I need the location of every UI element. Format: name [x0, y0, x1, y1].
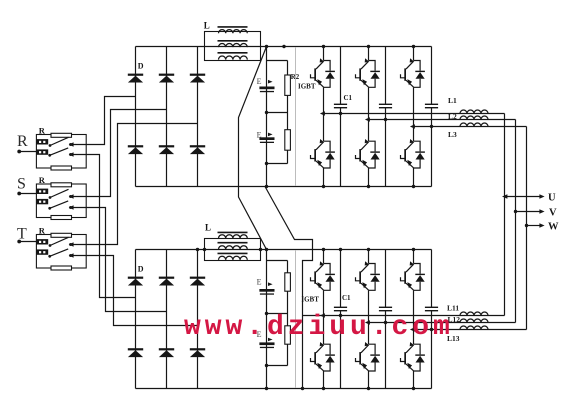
wire T phase to upper rectifier — [71, 124, 198, 245]
wire inverter leg 1 middle — [323, 87, 325, 141]
svg-text:U: U — [548, 193, 556, 204]
capacitor E1 (electrolytic) — [259, 87, 274, 93]
wire inverter leg 3 lower (lower unit) — [413, 371, 415, 389]
svg-text:W: W — [548, 222, 559, 233]
relay KR relay box — [36, 126, 86, 168]
wire DC link chain — [267, 47, 288, 187]
wire rectifier leg 1 — [135, 47, 137, 187]
wire DC+ rail — [136, 46, 432, 48]
relay KT bypass resistor top — [51, 233, 72, 237]
wire DC- rail — [136, 186, 432, 188]
svg-text:E: E — [257, 278, 262, 287]
IGBT Q6 (lower) with freewheel diode — [401, 139, 425, 168]
wire rectifier leg 2 — [166, 47, 168, 187]
relay KR contact blade 1 — [49, 137, 69, 147]
capacitor Cb2 branch — [379, 250, 392, 389]
diode Db6 (lower) — [190, 348, 205, 357]
diode Db2 (upper) — [159, 277, 174, 286]
wire inverter leg 2 lower (lower unit) — [368, 371, 370, 389]
wire DC+ rail (lower unit) — [136, 249, 432, 251]
node W output — [525, 222, 559, 233]
wire R phase to lower rectifier — [71, 155, 136, 298]
svg-text:R: R — [39, 126, 46, 136]
relay KT contact blade 1 — [49, 237, 69, 247]
svg-text:D: D — [138, 62, 144, 71]
capacitor Cb1 branch — [334, 250, 347, 389]
label E1 — [257, 77, 273, 86]
wire inverter leg 1 upper — [323, 47, 325, 61]
capacitor Cb3 branch — [425, 250, 438, 389]
wire output bus U vertical — [504, 114, 506, 316]
svg-text:L: L — [205, 222, 211, 232]
wire phase W1 output / inductor L3 — [410, 123, 527, 129]
relay KS relay box — [36, 175, 86, 217]
relay KT fuse block upper — [36, 239, 48, 244]
svg-text:C1: C1 — [342, 294, 351, 302]
relay KS contact blade 2 — [48, 201, 68, 210]
diode Db3 (upper) — [190, 277, 205, 286]
IGBT Qb1 (upper) with freewheel diode — [311, 261, 335, 290]
wire bus link A (upper DC+ to lower DC+) — [239, 47, 267, 250]
wire inverter leg 2 upper — [368, 47, 370, 61]
IGBT Qb5 (lower) with freewheel diode — [356, 342, 380, 371]
relay KS fuse block upper — [36, 189, 48, 194]
svg-text:R: R — [39, 226, 46, 236]
resistor R2b — [285, 130, 291, 151]
inductor L (DC choke) — [204, 20, 261, 60]
node V output — [514, 208, 557, 219]
relay KR contact arrow 1 — [69, 142, 74, 146]
relay KS contact arrow 2 — [69, 205, 74, 209]
svg-text:D: D — [138, 265, 144, 274]
relay KT bypass resistor bottom — [51, 266, 72, 270]
wire rectifier leg 2 (lower unit) — [166, 250, 168, 389]
diode Db4 (lower) — [128, 348, 143, 357]
capacitor C2 branch — [379, 47, 392, 187]
svg-text:L2: L2 — [448, 112, 457, 121]
IGBT Q3 (upper) with freewheel diode — [401, 58, 425, 87]
relay KS bypass resistor top — [51, 183, 72, 187]
wire R phase to upper rectifier — [71, 97, 136, 145]
resistor R2a — [285, 75, 291, 95]
relay KT input terminal T — [17, 226, 36, 244]
relay KS input terminal S — [17, 176, 36, 196]
IGBT Q5 (lower) with freewheel diode — [356, 139, 380, 168]
capacitor Eb2 (electrolytic) — [259, 342, 274, 348]
relay KS contact blade 1 — [49, 189, 69, 199]
svg-text:R: R — [39, 175, 46, 185]
capacitor C1 branch — [334, 47, 347, 187]
svg-text:IGBT: IGBT — [298, 83, 316, 91]
wire inverter leg 1 lower — [323, 168, 325, 187]
wire inverter leg 1 middle (lower unit) — [323, 290, 325, 344]
junction dots DC+ rail (lower unit) — [196, 248, 415, 251]
wire inverter leg 2 middle — [368, 87, 370, 141]
wire inverter leg 2 middle (lower unit) — [368, 290, 370, 344]
relay KT relay box — [36, 226, 86, 268]
wire T phase to lower rectifier — [71, 256, 198, 326]
label E2 (lower unit) — [257, 330, 273, 341]
wire output bus W vertical — [526, 127, 528, 330]
svg-text:V: V — [549, 208, 557, 219]
wire inverter leg 1 upper (lower unit) — [323, 250, 325, 264]
diode D4 (lower) — [128, 145, 143, 154]
relay KT contact arrow 2 — [69, 253, 74, 257]
relay KT fuse block lower — [36, 249, 48, 254]
IGBT Qb2 (upper) with freewheel diode — [356, 261, 380, 290]
svg-text:E: E — [257, 131, 262, 140]
svg-text:L: L — [204, 20, 210, 30]
wire DC- rail (lower unit) — [136, 388, 432, 390]
node U output — [502, 193, 556, 204]
wire rectifier leg 3 — [197, 47, 199, 187]
relay KR fuse block lower — [36, 149, 48, 154]
IGBT Qb3 (upper) with freewheel diode — [401, 261, 425, 290]
relay KR contact blade 2 — [48, 148, 68, 157]
wire phase V1 output / inductor L2 — [365, 116, 516, 122]
junction dots DC+ rail — [265, 45, 415, 48]
IGBT Q4 (lower) with freewheel diode — [311, 139, 335, 168]
wire inverter leg 3 middle (lower unit) — [413, 290, 415, 344]
IGBT Qb4 (lower) with freewheel diode — [311, 342, 335, 371]
wire inverter enclosure edge — [295, 48, 297, 186]
svg-text:L3: L3 — [448, 130, 457, 139]
label E1 (lower unit) — [257, 278, 273, 287]
diode D1 (upper) — [128, 74, 143, 83]
svg-text:E: E — [257, 77, 262, 86]
wire output bus V vertical — [515, 120, 517, 323]
svg-text:IGBT: IGBT — [301, 296, 319, 304]
junction dots DC link chain (lower unit) — [265, 312, 268, 367]
label E2 — [257, 131, 273, 140]
relay KR bypass resistor bottom — [51, 166, 72, 170]
junction dots DC- rail — [265, 185, 415, 188]
wire inverter leg 2 upper (lower unit) — [368, 250, 370, 264]
junction dots DC link chain — [265, 111, 268, 165]
wire S phase to lower rectifier — [71, 208, 167, 312]
wire inverter enclosure edge (lower unit) — [295, 251, 297, 388]
svg-text:C1: C1 — [344, 94, 353, 102]
wire inverter leg 3 lower — [413, 168, 415, 187]
wire bus link B (upper DC- to lower DC-) — [265, 187, 313, 389]
wire phase U2 output / inductor L11 — [303, 312, 505, 318]
wire inverter leg 1 lower (lower unit) — [323, 371, 325, 389]
capacitor Eb1 (electrolytic) — [259, 289, 274, 295]
wire rectifier leg 1 (lower unit) — [135, 250, 137, 389]
wire DC link chain (lower unit) — [267, 250, 288, 389]
junction dots DC- rail (lower unit) — [265, 387, 415, 390]
relay KS contact arrow 1 — [69, 194, 74, 198]
IGBT Q2 (upper) with freewheel diode — [356, 58, 380, 87]
diode D6 (lower) — [190, 145, 205, 154]
svg-text:L1: L1 — [448, 96, 457, 105]
relay KR input terminal R — [17, 133, 36, 153]
wire inverter leg 2 lower — [368, 168, 370, 187]
relay KR contact arrow 2 — [69, 152, 74, 156]
diode Db1 (upper) — [128, 277, 143, 286]
inductor L (DC choke) (lower unit) — [205, 222, 261, 260]
relay KR fuse block upper — [36, 139, 48, 144]
relay KT contact blade 2 — [48, 249, 68, 258]
svg-text:R: R — [17, 133, 28, 150]
IGBT Qb6 (lower) with freewheel diode — [401, 342, 425, 371]
wire S phase to upper rectifier — [71, 110, 167, 197]
junction dots output filter caps — [339, 112, 433, 331]
capacitor E2 (electrolytic) — [259, 137, 274, 143]
diode D3 (upper) — [190, 74, 205, 83]
svg-text:S: S — [17, 176, 26, 193]
IGBT Q1 (upper) with freewheel diode — [311, 58, 335, 87]
capacitor C3 branch — [425, 47, 438, 187]
diode D5 (lower) — [159, 145, 174, 154]
relay KS bypass resistor bottom — [51, 216, 72, 220]
svg-text:www.dziuu.com: www.dziuu.com — [184, 312, 454, 343]
relay KT contact arrow 1 — [69, 242, 74, 246]
wire phase V2 output / inductor L12 — [365, 319, 516, 325]
wire inverter leg 3 upper (lower unit) — [413, 250, 415, 264]
relay KS fuse block lower — [36, 199, 48, 204]
wire rectifier leg 3 (lower unit) — [197, 250, 199, 389]
resistor R2ba — [285, 273, 291, 291]
wire inverter leg 3 upper — [413, 47, 415, 61]
diode Db5 (lower) — [159, 348, 174, 357]
wire inverter leg 3 middle — [413, 87, 415, 141]
relay KR bypass resistor top — [51, 133, 72, 137]
diode D2 (upper) — [159, 74, 174, 83]
wire phase W2 output / inductor L13 — [410, 326, 527, 332]
resistor R2bb — [285, 326, 291, 344]
wire phase U1 output / inductor L1 — [320, 110, 505, 116]
